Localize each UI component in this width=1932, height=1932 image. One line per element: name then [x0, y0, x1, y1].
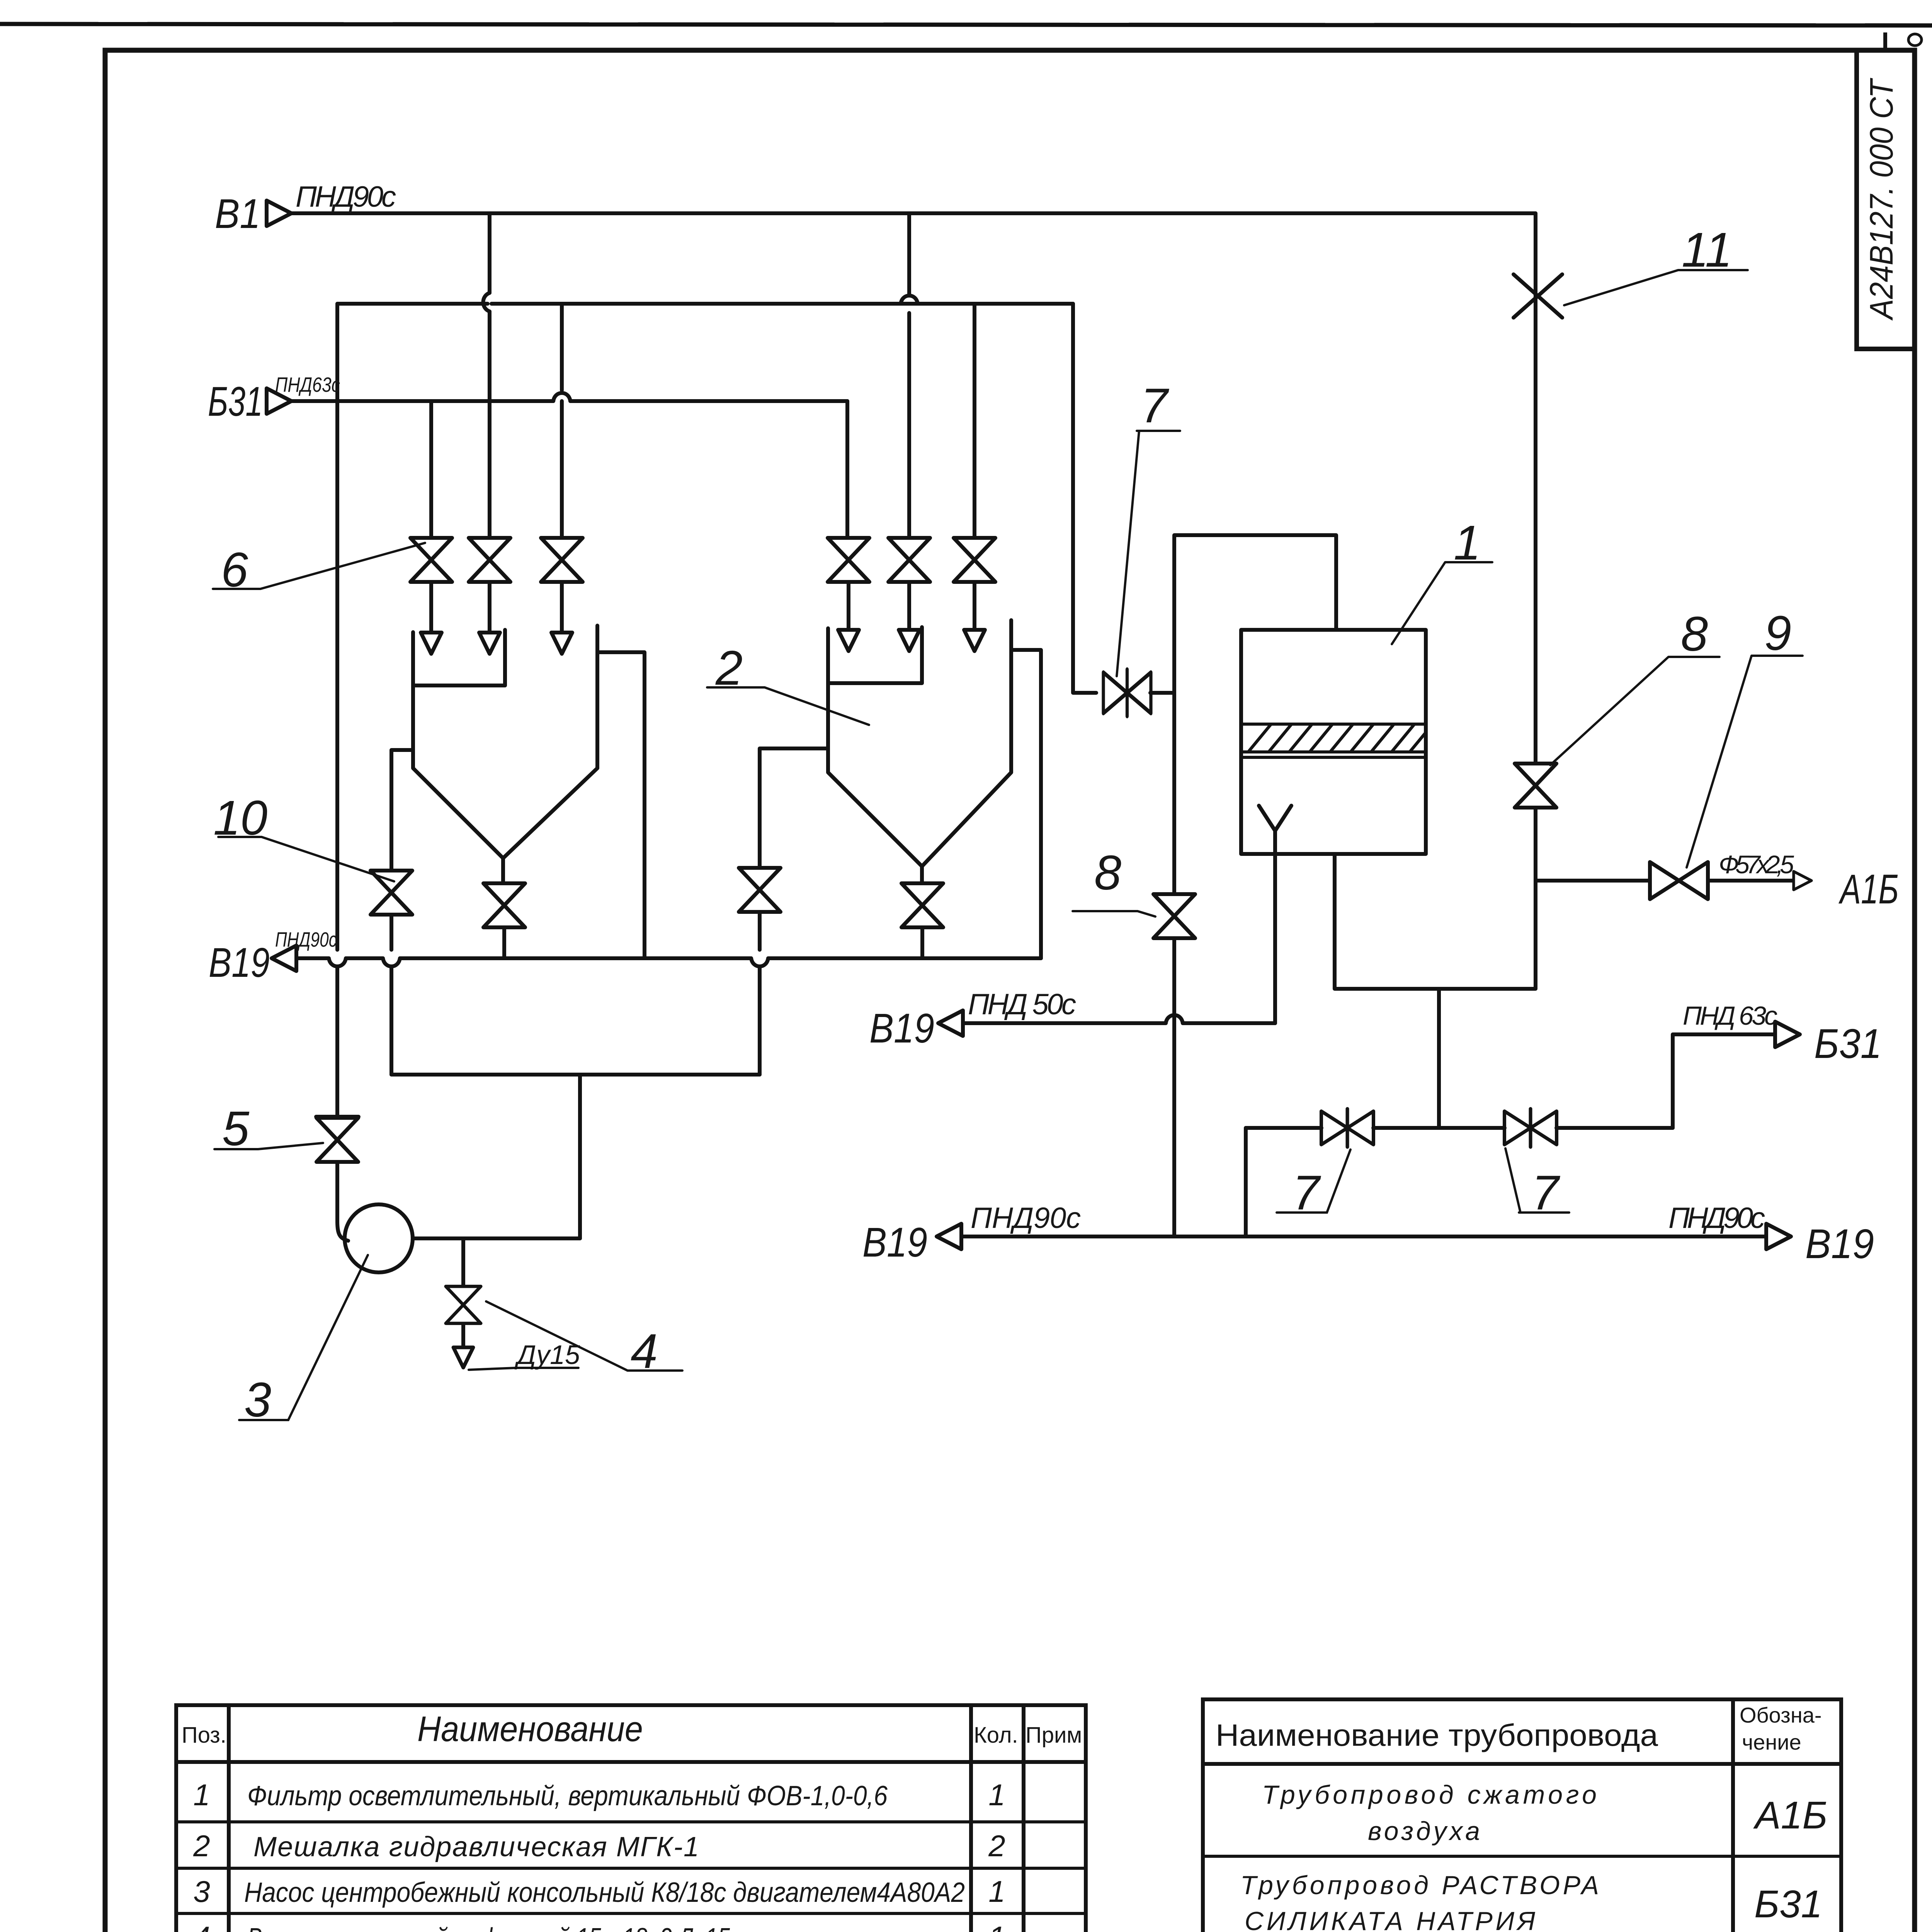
- svg-text:А1Б: А1Б: [1838, 866, 1899, 912]
- svg-text:В19: В19: [862, 1219, 927, 1265]
- svg-text:9: 9: [1764, 606, 1791, 660]
- top right registration tick: [1883, 32, 1887, 49]
- valve 6e: [888, 538, 930, 582]
- svg-text:7: 7: [1141, 378, 1169, 433]
- svg-text:ПНД90с: ПНД90с: [275, 928, 337, 951]
- spout arrow below valve 6f: [973, 582, 976, 630]
- wire valve 10b to drain header: [502, 927, 506, 958]
- parts table quantity numbers: [988, 1778, 1005, 1932]
- svg-text:ПНД90с: ПНД90с: [1668, 1202, 1765, 1235]
- pipe second header (recirculation): [337, 302, 1073, 306]
- spout arrow below valve 6b: [488, 582, 492, 633]
- sheet top edge line: [0, 24, 1932, 26]
- pipe label Ду15: [469, 1340, 580, 1370]
- svg-text:А24В127. 000 СТ: А24В127. 000 СТ: [1863, 78, 1900, 321]
- hop of suction line over drain header: [329, 958, 346, 966]
- document stamp box top right: [1857, 50, 1915, 349]
- svg-text:8: 8: [1094, 845, 1121, 900]
- mixer vessel 2 (left unit) side tap to riser: [391, 750, 413, 871]
- valve 6f: [954, 538, 995, 582]
- svg-text:В19: В19: [869, 1005, 934, 1051]
- position label 7 top: [1117, 378, 1180, 676]
- mixer vessel 2 (left unit) overflow pipe: [597, 652, 645, 958]
- svg-text:ПНД 50с: ПНД 50с: [968, 988, 1076, 1021]
- valve 8b: [1515, 764, 1556, 808]
- pipe В19 ПНД50с drain line: [963, 1021, 1275, 1025]
- position label 1: [1392, 515, 1492, 644]
- svg-text:СИЛИКАТА НАТРИЯ: СИЛИКАТА НАТРИЯ: [1245, 1906, 1536, 1932]
- position label 2: [707, 641, 869, 725]
- wire collection header to pump line: [578, 1075, 582, 1238]
- node А1Б outlet arrow: [1794, 871, 1811, 890]
- svg-text:Мешалка гидравлическая МГК-1: Мешалка гидравлическая МГК-1: [253, 1832, 699, 1862]
- svg-text:Ф57х2,5: Ф57х2,5: [1719, 850, 1794, 879]
- spout arrow below valve 6c: [560, 582, 564, 633]
- filter 1 bed hatching: [1249, 725, 1425, 751]
- pipe В19 bottom drain line ПНД90с: [961, 1235, 1766, 1238]
- valve 6c: [541, 538, 583, 582]
- pipe collection header: [391, 1073, 760, 1077]
- valve 9: [1650, 862, 1708, 899]
- position label 3: [239, 1255, 368, 1427]
- svg-text:Трубопровод РАСТВОРА: Трубопровод РАСТВОРА: [1240, 1871, 1599, 1900]
- hop of B1 drop over second header: [483, 293, 490, 311]
- svg-text:ПНД90с: ПНД90с: [971, 1202, 1081, 1235]
- wire gate valve 7 to riser: [1150, 691, 1174, 695]
- wire drop to valve 6c from second header: [560, 304, 564, 538]
- position label 4: [486, 1301, 682, 1378]
- svg-text:Кол.: Кол.: [974, 1723, 1018, 1748]
- gate valve 7 (filter inlet): [1104, 670, 1151, 716]
- valve 4: [446, 1286, 481, 1323]
- pipe drain header В19 ПНД90с: [296, 956, 1041, 960]
- position label 7a: [1277, 1150, 1350, 1220]
- valve 10a on left recirculation riser: [371, 871, 412, 915]
- position label 9: [1687, 606, 1803, 867]
- parts table item names: [244, 1781, 965, 1932]
- svg-text:Б31: Б31: [208, 378, 263, 425]
- parts list table grid: [176, 1705, 1086, 1932]
- parts table header: [182, 1709, 1082, 1749]
- svg-text:Наименование трубопровода: Наименование трубопровода: [1216, 1718, 1658, 1752]
- check valve 5 seat bar: [316, 1115, 359, 1119]
- svg-text:Обозна-: Обозна-: [1740, 1703, 1822, 1727]
- spout arrow below valve 6d: [847, 582, 850, 630]
- top right hole mark: [1908, 34, 1922, 46]
- svg-text:Б31: Б31: [1754, 1883, 1822, 1926]
- valve 10c on right recirculation riser: [739, 868, 781, 912]
- svg-text:чение: чение: [1742, 1730, 1801, 1754]
- filter 1 body: [1241, 630, 1426, 854]
- svg-text:В19: В19: [209, 939, 270, 986]
- svg-text:Насос центробежный консольный: Насос центробежный консольный К8/18с дви…: [244, 1877, 965, 1908]
- wire valve 10d to drain header: [920, 927, 924, 958]
- hop of valve 6c drop over Б31 header: [553, 393, 570, 401]
- position label 7b: [1505, 1148, 1569, 1220]
- position label 5: [214, 1101, 323, 1156]
- wire riser below valve 10c: [758, 912, 762, 1075]
- position label 6: [213, 543, 425, 597]
- pump 3 circle: [345, 1204, 413, 1272]
- svg-text:В19: В19: [1805, 1220, 1874, 1267]
- wire below valve 4 with drain arrow: [461, 1324, 465, 1347]
- svg-text:3: 3: [244, 1372, 271, 1427]
- svg-text:2: 2: [988, 1829, 1005, 1863]
- position label 10: [213, 791, 394, 881]
- hop of valve 10a riser over drain header: [383, 958, 400, 966]
- pipeline table row 1: [1262, 1780, 1597, 1846]
- wire drop to valve 6f from second header: [973, 304, 976, 538]
- svg-text:ПНД63с: ПНД63с: [275, 373, 340, 396]
- wire filter bottom to gate valves 7: [1437, 989, 1441, 1128]
- wire B1 right branch down through throttle: [1534, 213, 1537, 764]
- hop of valve 6e drop over second header: [901, 296, 918, 304]
- svg-text:Вентиль запорный муфтовый 15кч: Вентиль запорный муфтовый 15кч18п2 Ду15: [247, 1923, 730, 1932]
- svg-text:11: 11: [1682, 223, 1732, 277]
- check valve 5: [316, 1118, 358, 1162]
- valve 8a on drain riser: [1153, 894, 1195, 938]
- svg-text:Прим: Прим: [1026, 1723, 1082, 1748]
- svg-text:1: 1: [988, 1920, 1005, 1932]
- valve 6a: [410, 538, 452, 582]
- node В19 arrow bottom left: [937, 1224, 961, 1249]
- mixer vessel 2 (right unit) walls: [828, 620, 1011, 883]
- valve 10d on right funnel outlet: [901, 883, 943, 927]
- filter 1 internal collector funnel: [1259, 806, 1291, 1023]
- node Б31 outlet arrow: [1775, 1022, 1800, 1047]
- parts table position numbers: [185, 1778, 219, 1932]
- gate valve 7b: [1505, 1109, 1557, 1147]
- pipe А1Б compressed air line: [1536, 879, 1794, 883]
- spout arrow below valve 6e: [907, 582, 911, 630]
- wire filter inlet riser and arch: [1174, 535, 1336, 894]
- pipeline table row 2: [1240, 1871, 1599, 1932]
- hop of valve 10c riser over drain header: [751, 958, 768, 966]
- pipe pump suction from B1 second header: [337, 304, 348, 1241]
- wire below valve 8b to filter bottom loop: [1335, 808, 1536, 989]
- wire drop to drain valve 4: [461, 1238, 465, 1286]
- node В19 arrow on ПНД50с: [938, 1010, 963, 1036]
- node В19 drain arrow left: [272, 946, 296, 971]
- svg-text:1: 1: [193, 1778, 210, 1812]
- mixer vessel 2 (right unit) overflow pipe: [1011, 650, 1041, 958]
- wire drain riser below valve 8a: [1172, 938, 1176, 1236]
- wire elbow down to В19 bottom line: [1244, 1128, 1248, 1236]
- position label 8 right: [1550, 607, 1719, 765]
- svg-text:Поз.: Поз.: [182, 1723, 226, 1748]
- svg-text:ПНД 63с: ПНД 63с: [1683, 1001, 1777, 1031]
- pipe B1 main header ПНД90с: [291, 211, 1536, 215]
- pipe Б31 return line ПНД63с: [1673, 1034, 1775, 1128]
- pipe pump discharge line: [413, 1236, 580, 1240]
- pipeline designation table grid: [1203, 1699, 1841, 1932]
- gate valve 7a: [1321, 1109, 1374, 1147]
- wire Б31 branch down to gate valve 7: [1073, 304, 1096, 693]
- svg-text:В1: В1: [215, 190, 260, 237]
- position label 11: [1564, 223, 1748, 305]
- wire drop to valve 6b from B1: [488, 213, 492, 538]
- mixer vessel 2 (right unit) side tap to riser: [760, 748, 828, 868]
- svg-text:4: 4: [193, 1920, 210, 1932]
- node B1 inlet arrow: [267, 201, 291, 226]
- svg-text:2: 2: [193, 1829, 210, 1863]
- svg-text:Фильтр осветлительный, вертика: Фильтр осветлительный, вертикальный ФОВ-…: [247, 1781, 888, 1811]
- valve 6b: [469, 538, 510, 582]
- svg-text:5: 5: [222, 1101, 250, 1156]
- spout arrow below valve 6a: [429, 582, 433, 633]
- hop of drain riser over ПНД50с line: [1166, 1015, 1183, 1023]
- valve 10b on left funnel outlet: [483, 883, 525, 927]
- filter 1 bed band: [1241, 724, 1426, 757]
- wire drop to valve 6e from B1: [907, 213, 911, 538]
- valve 6d: [828, 538, 869, 582]
- svg-text:ПНД90с: ПНД90с: [296, 180, 396, 213]
- throttle 11: [1514, 274, 1562, 318]
- svg-text:Ду15: Ду15: [514, 1340, 580, 1370]
- mixer vessel 2 (left unit) walls: [413, 626, 597, 883]
- pipe Б31 header ПНД63с: [291, 399, 847, 403]
- svg-text:8: 8: [1681, 607, 1708, 661]
- svg-text:3: 3: [193, 1874, 210, 1908]
- wire drop to valve 6d from Б31 end: [845, 401, 849, 538]
- svg-text:Наименование: Наименование: [417, 1709, 643, 1749]
- position label 8 left: [1073, 845, 1155, 917]
- pipe lower gate valve line: [1246, 1126, 1673, 1130]
- svg-text:А1Б: А1Б: [1753, 1794, 1827, 1837]
- wire riser below valve 10a: [389, 915, 393, 1075]
- node В19 arrow bottom right: [1766, 1224, 1791, 1249]
- wire drop to valve 6a: [429, 401, 433, 538]
- svg-text:1: 1: [988, 1874, 1005, 1908]
- node Б31 inlet arrow: [267, 388, 291, 414]
- svg-text:1: 1: [988, 1778, 1005, 1812]
- svg-text:Б31: Б31: [1814, 1020, 1882, 1067]
